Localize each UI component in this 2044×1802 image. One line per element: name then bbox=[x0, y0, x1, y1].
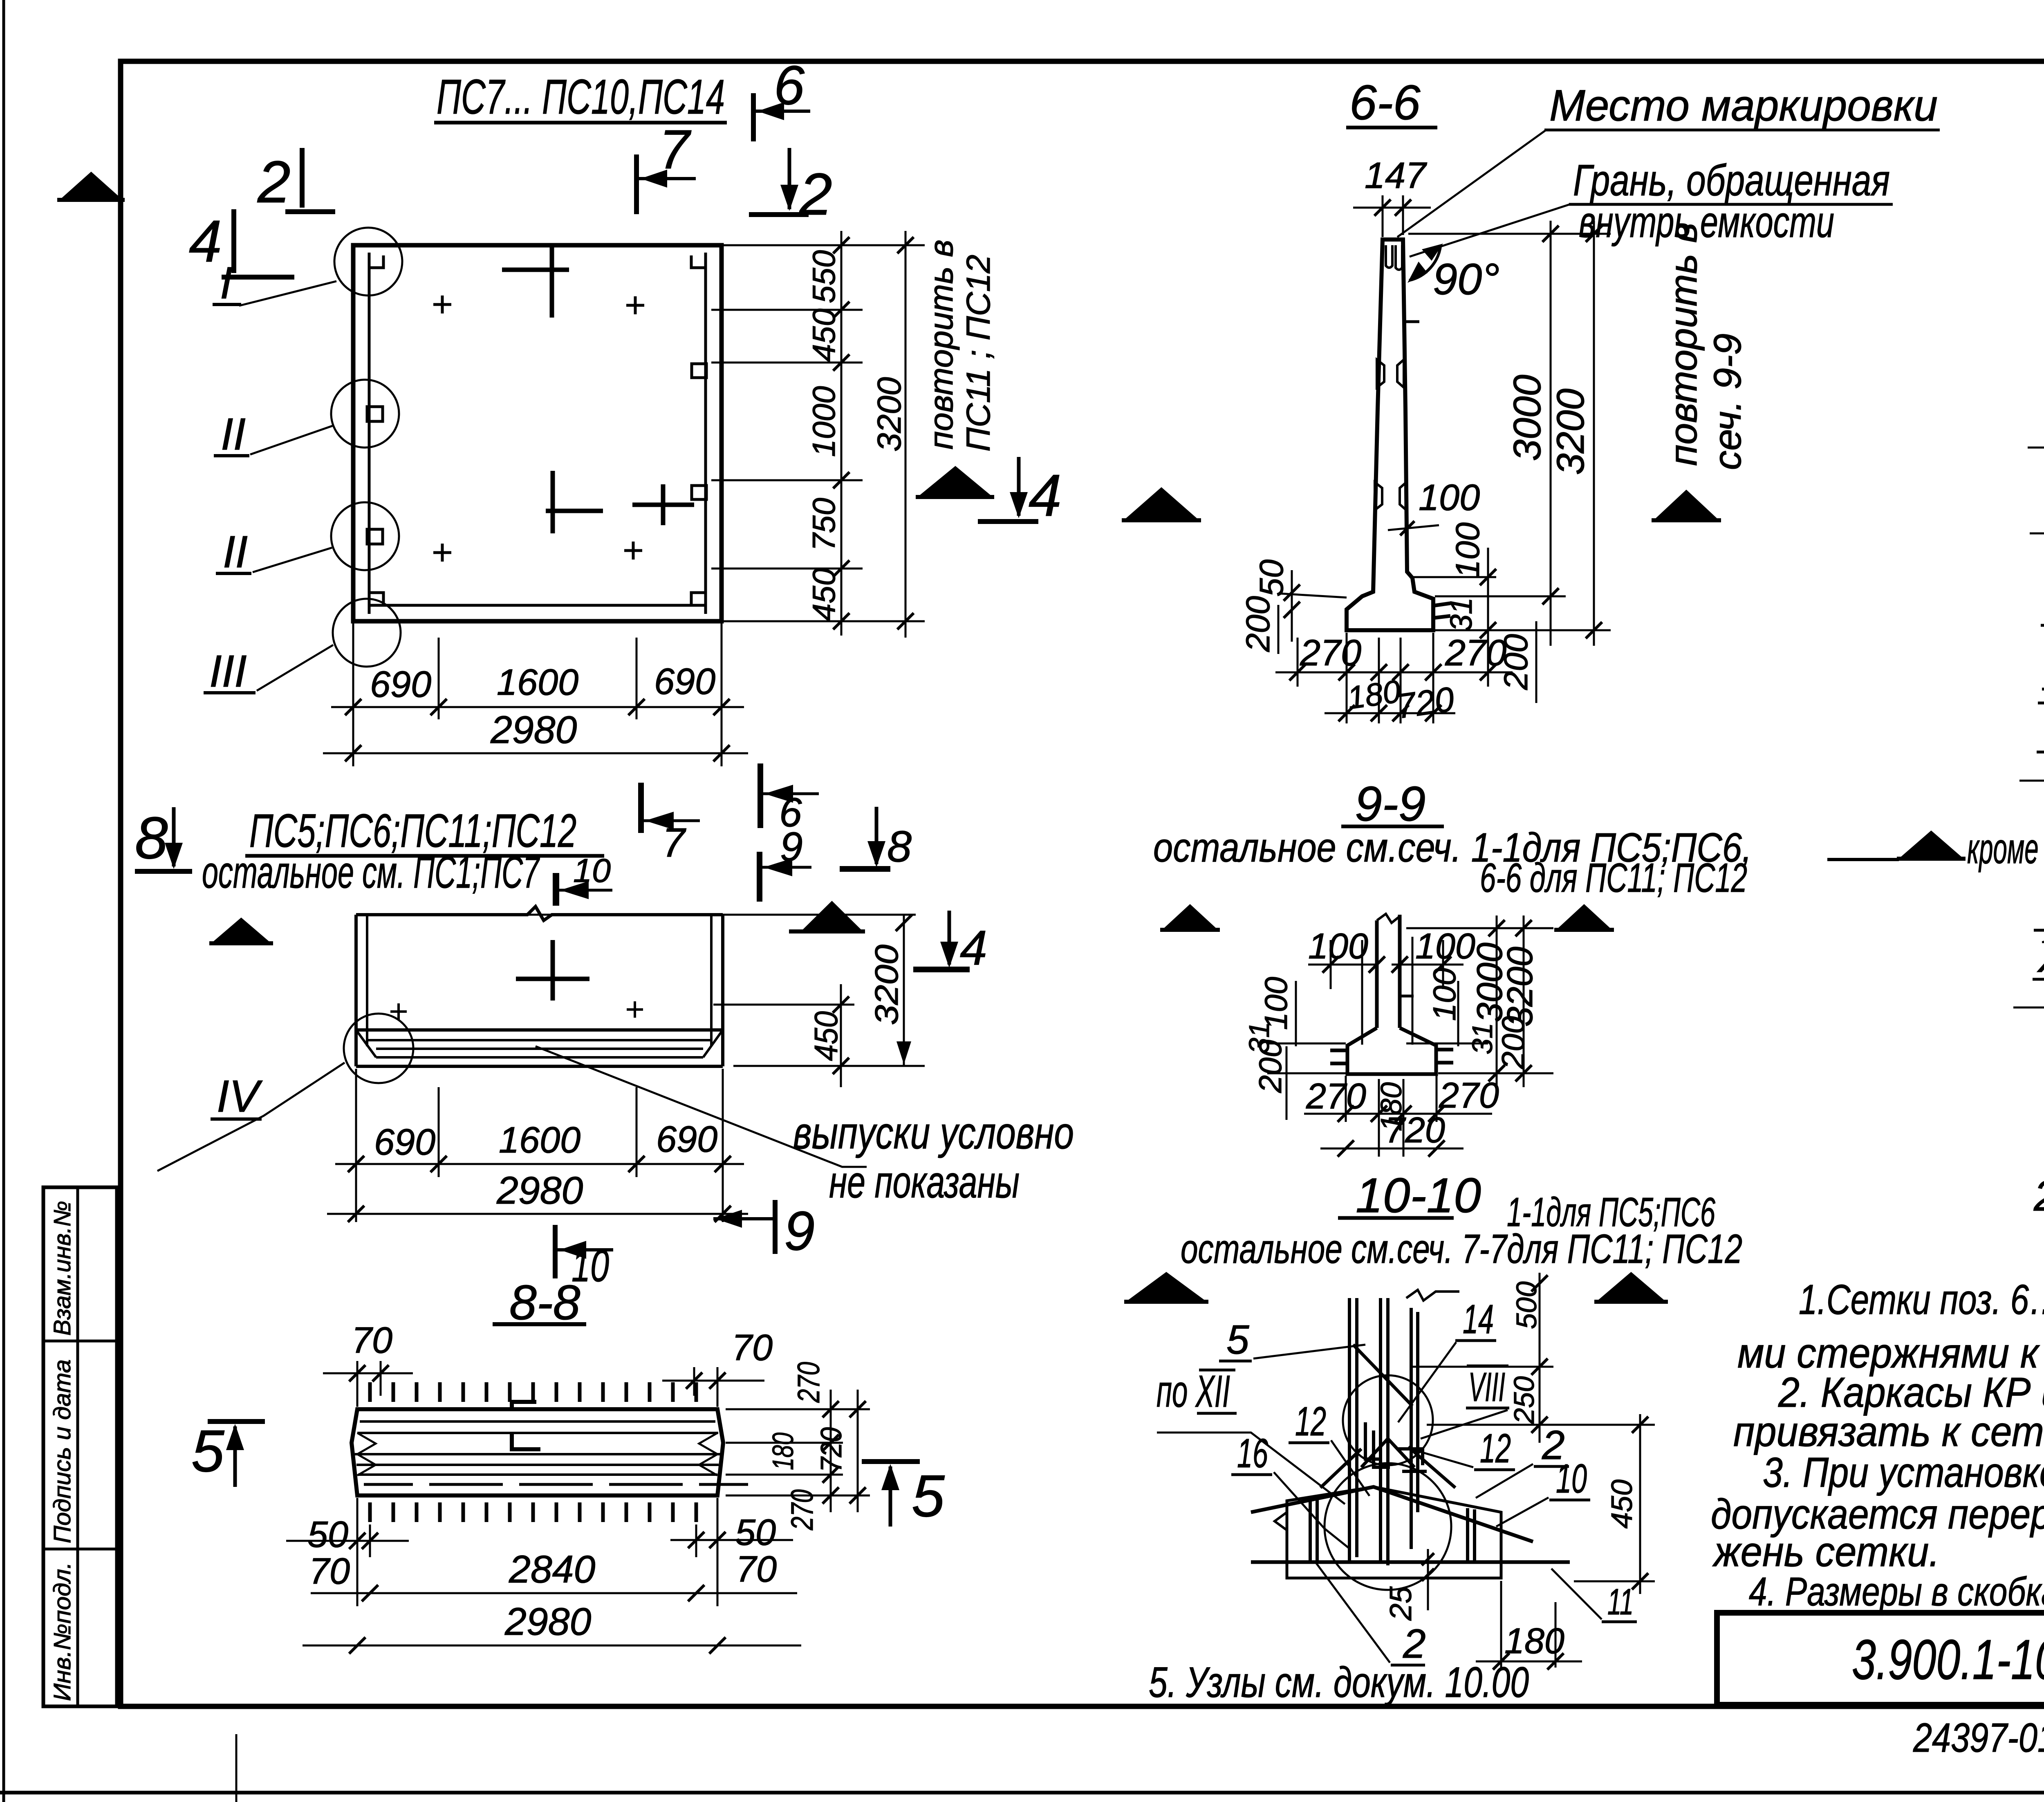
svg-text:2980: 2980 bbox=[490, 708, 577, 752]
sec88 dim line 2980 bbox=[303, 1645, 801, 1647]
svg-text:100: 100 bbox=[1415, 926, 1475, 966]
svg-text:24397-01: 24397-01 bbox=[1913, 1715, 2044, 1761]
sec88 key mark top bbox=[512, 1402, 540, 1449]
svg-text:90°: 90° bbox=[1433, 254, 1499, 304]
sec1010 circle upper bbox=[1343, 1375, 1433, 1465]
flag 6 plan2 bbox=[758, 763, 763, 828]
plan2 left inner bbox=[366, 915, 368, 1046]
dim ext right 750 bbox=[711, 568, 863, 570]
triangle left of 6-6 bbox=[1125, 487, 1198, 519]
dim line 3000 bbox=[1550, 221, 1552, 646]
svg-text:200: 200 bbox=[1252, 1040, 1288, 1093]
dim ext bottom left bbox=[352, 623, 354, 766]
svg-text:жень сетки.: жень сетки. bbox=[1712, 1528, 1940, 1575]
leader gran bbox=[1410, 204, 1570, 257]
svg-text:1000: 1000 bbox=[806, 386, 842, 457]
sec99 dims 3000 3200 bbox=[1496, 916, 1498, 1087]
detail circle II a bbox=[331, 380, 399, 448]
svg-text:750: 750 bbox=[806, 498, 842, 551]
svg-text:147: 147 bbox=[1365, 155, 1427, 196]
svg-text:II: II bbox=[221, 409, 246, 459]
dim ext bottom right bbox=[721, 623, 723, 766]
svg-text:VIII: VIII bbox=[1468, 1364, 1505, 1410]
detail circle IV bbox=[344, 1014, 413, 1083]
plan1 bottom inner line bbox=[369, 604, 706, 607]
sec66 angle arc 90 bbox=[1409, 245, 1441, 280]
plan2 right ext top3200 bbox=[489, 914, 916, 916]
scan bottom edge line bbox=[0, 1791, 2044, 1795]
svg-text:720: 720 bbox=[815, 1427, 848, 1472]
sec99 footing dowels bbox=[1330, 1050, 1453, 1063]
plan2 top edge with break bbox=[356, 907, 723, 920]
plus mark tr bbox=[626, 296, 644, 314]
svg-text:Взам.инв.№: Взам.инв.№ bbox=[49, 1201, 76, 1336]
sec66 bottom dim line2 bbox=[1325, 712, 1455, 714]
svg-text:450: 450 bbox=[806, 309, 842, 362]
svg-text:690: 690 bbox=[656, 1119, 717, 1160]
heading 6-6 underline bbox=[1346, 126, 1437, 130]
sec88 dashed line bbox=[364, 1483, 748, 1486]
svg-text:10: 10 bbox=[1556, 1456, 1587, 1502]
dim ticks v1 bbox=[833, 237, 849, 629]
svg-text:3200: 3200 bbox=[868, 945, 905, 1025]
svg-text:2980: 2980 bbox=[496, 1169, 583, 1212]
sec99 bottom dims 270 180 270 bbox=[1345, 1076, 1347, 1122]
plus mark tl bbox=[433, 295, 451, 313]
sec66 leader line 50 bbox=[1279, 593, 1347, 598]
svg-text:20: 20 bbox=[2033, 1172, 2044, 1220]
svg-text:690: 690 bbox=[654, 661, 715, 702]
leader II b bbox=[253, 548, 332, 572]
dim ticks bottom1 bbox=[345, 699, 730, 715]
svg-text:70: 70 bbox=[732, 1327, 773, 1368]
sec1010 slab bottom bbox=[1287, 1577, 1501, 1580]
dim ticks bottom2 bbox=[345, 745, 730, 761]
dim ext bottom 690 bbox=[438, 638, 440, 719]
plan2 dim line1 bbox=[335, 1163, 744, 1165]
svg-text:по XII: по XII bbox=[1156, 1366, 1230, 1417]
sec1010 footing break left bbox=[1275, 1512, 1287, 1530]
svg-text:4: 4 bbox=[1029, 462, 1062, 528]
plan1 corner key bottom-left bbox=[369, 593, 383, 605]
svg-text:180: 180 bbox=[767, 1433, 800, 1470]
plan1 key mid-left-2 bbox=[367, 529, 383, 544]
svg-text:16: 16 bbox=[1237, 1430, 1268, 1476]
centerline mark center bbox=[551, 471, 555, 533]
ext footing bottom right bbox=[1435, 629, 1611, 631]
svg-text:3200: 3200 bbox=[871, 377, 908, 452]
svg-text:6-6 для ПС11; ПС12: 6-6 для ПС11; ПС12 bbox=[1480, 855, 1747, 901]
svg-text:Подпись и дата: Подпись и дата bbox=[49, 1359, 76, 1543]
sec1010 dim 180 bbox=[1500, 1581, 1502, 1668]
svg-text:1600: 1600 bbox=[497, 662, 578, 703]
sec66 top joint marks bbox=[1386, 245, 1402, 270]
sec1010 hook bars bbox=[1365, 1422, 1427, 1471]
svg-text:сеч. 9-9: сеч. 9-9 bbox=[1706, 334, 1749, 470]
dim ext right 450 bbox=[711, 362, 863, 364]
svg-text:привязать к сеткам.: привязать к сеткам. bbox=[1733, 1408, 2044, 1455]
plan2 right inner bbox=[710, 915, 713, 1046]
svg-text:70: 70 bbox=[352, 1320, 392, 1361]
dim ext right 1000 bbox=[711, 479, 863, 481]
svg-text:180: 180 bbox=[1504, 1621, 1564, 1661]
svg-text:50: 50 bbox=[1253, 560, 1290, 597]
svg-text:25: 25 bbox=[1383, 1586, 1418, 1621]
svg-text:2: 2 bbox=[257, 149, 291, 215]
plan1 corner key bottom-right bbox=[691, 593, 706, 605]
svg-text:2980: 2980 bbox=[504, 1600, 592, 1643]
svg-text:3. При установке строповочны: 3. При установке строповочных петель bbox=[1763, 1449, 2044, 1496]
heading 8-8 underline bbox=[493, 1322, 586, 1326]
svg-text:ПС7... ПС10,ПС14: ПС7... ПС10,ПС14 bbox=[437, 69, 725, 124]
svg-text:270: 270 bbox=[1439, 1075, 1499, 1115]
sec66 footing dowels bbox=[1433, 603, 1450, 618]
dim ext right bottom bbox=[723, 620, 925, 622]
stamp divider vertical bbox=[76, 1187, 79, 1706]
dim line bottom 1 bbox=[331, 706, 744, 708]
svg-text:5: 5 bbox=[1226, 1317, 1249, 1363]
svg-text:Инв.№подл.: Инв.№подл. bbox=[49, 1562, 76, 1701]
sec88 right dims 270 180 720 270 bbox=[726, 1408, 870, 1410]
plan2 dim line2 bbox=[327, 1213, 748, 1215]
svg-text:8-8: 8-8 bbox=[509, 1275, 580, 1330]
svg-text:50: 50 bbox=[735, 1512, 776, 1553]
svg-text:4. Размеры в скобках для пане: 4. Размеры в скобках для панелей ПС13 и … bbox=[1749, 1569, 2044, 1614]
sec88 inner line d bbox=[356, 1464, 719, 1466]
sec99 break top bbox=[1377, 914, 1400, 923]
svg-text:8: 8 bbox=[887, 822, 912, 871]
svg-text:14: 14 bbox=[1463, 1296, 1494, 1342]
leader IV bbox=[157, 1063, 345, 1171]
sec1010 diag brace2 bbox=[1320, 1447, 1455, 1488]
svg-text:1600: 1600 bbox=[499, 1120, 580, 1161]
leader vypuski bbox=[536, 1046, 867, 1167]
plan2 dim ext 690 bbox=[438, 1087, 440, 1177]
svg-text:450: 450 bbox=[1606, 1480, 1638, 1529]
svg-text:11: 11 bbox=[1607, 1582, 1634, 1623]
sec1010 X brace bbox=[1353, 1345, 1414, 1467]
dim 3000 3200 ext top bbox=[1408, 233, 1611, 235]
heading underline bbox=[434, 121, 727, 125]
svg-text:повторить в: повторить в bbox=[1662, 223, 1705, 466]
svg-text:2: 2 bbox=[799, 161, 832, 227]
sec88 inner line c bbox=[355, 1453, 720, 1455]
leader mesto markirovki bbox=[1397, 130, 1546, 237]
plan1 key mid-left-1 bbox=[367, 407, 383, 421]
svg-text:XII: XII bbox=[2037, 931, 2044, 982]
svg-text:270: 270 bbox=[1445, 633, 1506, 674]
plan2 bottom edge bbox=[356, 1065, 723, 1068]
sec66 bottom dims bbox=[1346, 633, 1348, 723]
svg-text:31: 31 bbox=[1444, 598, 1478, 631]
svg-text:3200: 3200 bbox=[1549, 388, 1592, 475]
svg-text:1.Сетки поз. 6…9установить анк: 1.Сетки поз. 6…9установить анкерующи- bbox=[1799, 1276, 2044, 1323]
sec1010 bar 10 diagonal bbox=[1251, 1487, 1533, 1542]
plan2 dim ext right bbox=[722, 1069, 724, 1222]
svg-text:500: 500 bbox=[1511, 1281, 1542, 1329]
sec88 corner notch right bbox=[699, 1433, 717, 1475]
svg-text:250: 250 bbox=[1508, 1376, 1540, 1424]
svg-text:IV: IV bbox=[217, 1071, 263, 1121]
centerline mark top bbox=[550, 246, 554, 318]
plan2 right dim ext top450 bbox=[713, 1004, 854, 1006]
leader I bbox=[239, 281, 336, 306]
svg-text:5. Узлы см. докум. 10.00: 5. Узлы см. докум. 10.00 bbox=[1149, 1659, 1529, 1706]
sec1010 stirrups in footing bbox=[1310, 1496, 1475, 1562]
sec88 slab outline bbox=[352, 1409, 723, 1495]
plan2 dim ext 1600 bbox=[636, 1087, 638, 1177]
svg-text:720: 720 bbox=[1385, 1110, 1445, 1150]
svg-text:повторить в: повторить в bbox=[923, 240, 960, 450]
plan1 outer square bbox=[353, 245, 722, 621]
plan2 bevel right bbox=[703, 1030, 723, 1057]
svg-text:7: 7 bbox=[662, 820, 686, 866]
flag 10 plan2 bottom bbox=[553, 1225, 558, 1278]
svg-text:остальное см. ПС1;ПС7: остальное см. ПС1;ПС7 bbox=[202, 847, 540, 898]
svg-text:ПС11 ; ПС12: ПС11 ; ПС12 bbox=[960, 255, 997, 452]
svg-text:8: 8 bbox=[135, 805, 168, 871]
svg-text:10-10: 10-10 bbox=[1356, 1168, 1481, 1223]
heading underline2 bbox=[245, 854, 604, 858]
sec66 void upper bbox=[1377, 360, 1404, 387]
centerline mark right bbox=[661, 484, 666, 525]
sec88 inner line a bbox=[360, 1420, 715, 1423]
dim ticks v2 bbox=[897, 237, 914, 629]
stamp divider h1 bbox=[43, 1340, 117, 1343]
triangle left of plan1 bbox=[61, 172, 122, 199]
triangle plan2 left bbox=[213, 918, 270, 942]
sec66 column outline bbox=[1347, 240, 1433, 630]
flag 9 plan2 bbox=[757, 852, 762, 902]
svg-text:690: 690 bbox=[370, 664, 431, 705]
plan1 left wall inner line bbox=[368, 253, 371, 614]
plus mark bl bbox=[433, 544, 451, 562]
svg-text:450: 450 bbox=[806, 568, 842, 621]
sec66 void lower bbox=[1375, 482, 1406, 510]
sec1010 footing outline bbox=[1287, 1487, 1501, 1578]
svg-text:70: 70 bbox=[736, 1549, 777, 1590]
sec1010 circle lower bbox=[1325, 1463, 1451, 1590]
sec1010 break top bbox=[1406, 1290, 1459, 1301]
sec66 right small tick bbox=[1405, 320, 1419, 323]
dim ext bottom 1600 bbox=[636, 638, 638, 719]
svg-text:720: 720 bbox=[1394, 680, 1457, 726]
svg-text:4: 4 bbox=[189, 208, 222, 274]
ext footing top right bbox=[1435, 595, 1566, 598]
plan2 dim line 450 bbox=[840, 984, 842, 1087]
dim line v2 3200 bbox=[905, 231, 907, 638]
dim ext right 550 bbox=[711, 309, 863, 311]
svg-text:690: 690 bbox=[374, 1122, 435, 1163]
svg-text:5: 5 bbox=[912, 1463, 945, 1529]
plan2 left edge bbox=[354, 915, 358, 1066]
svg-text:Место маркировки: Место маркировки bbox=[1549, 81, 1938, 130]
plan1 key mid-right-1 bbox=[692, 364, 706, 378]
stamp column box bbox=[43, 1187, 117, 1706]
triangle right of 6-6 bbox=[1655, 490, 1718, 519]
leader II a bbox=[250, 426, 332, 454]
svg-text:5: 5 bbox=[191, 1418, 224, 1484]
detail circle I bbox=[334, 228, 402, 295]
heading 9-9 underline bbox=[1341, 825, 1444, 828]
flag 9 plan2 bottom bbox=[773, 1200, 778, 1254]
heading 10-10 underline bbox=[1338, 1216, 1454, 1220]
svg-text:200: 200 bbox=[1239, 596, 1277, 652]
plan2 right dim ext bot bbox=[733, 1065, 925, 1067]
svg-text:100: 100 bbox=[1419, 477, 1480, 518]
svg-text:550: 550 bbox=[806, 250, 842, 303]
svg-text:выпуски условно: выпуски условно bbox=[793, 1108, 1074, 1158]
svg-text:100: 100 bbox=[1449, 522, 1486, 578]
svg-text:12: 12 bbox=[1480, 1426, 1511, 1471]
svg-text:остальное см.сеч. 7-7для ПС11;: остальное см.сеч. 7-7для ПС11; ПС12 bbox=[1181, 1226, 1742, 1272]
svg-text:3000: 3000 bbox=[1506, 374, 1549, 461]
svg-text:70: 70 bbox=[309, 1551, 350, 1592]
sec88 inner line e bbox=[358, 1473, 717, 1476]
plan2 bevel left bbox=[356, 1030, 376, 1057]
sec1010 dim 250 bbox=[1539, 1373, 1541, 1443]
sec99 footing bbox=[1347, 1028, 1436, 1074]
sec88 inner line b bbox=[357, 1432, 718, 1434]
svg-text:10: 10 bbox=[573, 852, 611, 889]
plan2 dim line 3200 bbox=[903, 915, 905, 1065]
svg-text:270: 270 bbox=[791, 1362, 826, 1403]
plan2 plus right bbox=[627, 1001, 643, 1018]
flag 10 plan2 bbox=[553, 873, 559, 906]
svg-text:450: 450 bbox=[808, 1011, 844, 1061]
sec88 teeth top bbox=[370, 1382, 696, 1402]
fold mark bottom left bbox=[235, 1734, 238, 1802]
plan2 ledge lines bbox=[356, 1028, 723, 1032]
triangle right of plan1 bbox=[919, 466, 991, 496]
sec99 left ext lines bbox=[1267, 1043, 1346, 1045]
sec88 corner notch left bbox=[357, 1433, 376, 1475]
triangle plan2 right bbox=[802, 901, 862, 930]
sec1010 triangle right bbox=[1598, 1272, 1665, 1301]
plan1 corner key top-right bbox=[691, 255, 706, 268]
triangle krome bbox=[1900, 830, 1962, 857]
svg-text:3.900.1-10.2-3-02.00: 3.900.1-10.2-3-02.00 bbox=[1852, 1628, 2044, 1691]
sec1010 wall bars bbox=[1349, 1298, 1418, 1565]
svg-text:9: 9 bbox=[780, 824, 803, 870]
plan2 plus left bbox=[390, 1003, 407, 1020]
svg-text:9: 9 bbox=[784, 1200, 815, 1262]
plan2 dim ext left bbox=[355, 1069, 357, 1222]
svg-text:3200: 3200 bbox=[1499, 947, 1540, 1027]
svg-text:не показаны: не показаны bbox=[829, 1157, 1020, 1207]
sec99 triangle left bbox=[1163, 904, 1217, 929]
svg-text:2840: 2840 bbox=[509, 1548, 596, 1591]
dim ext right top bbox=[723, 244, 925, 246]
sec99 wall lines bbox=[1377, 915, 1400, 1028]
title block box bbox=[1717, 1613, 2044, 1705]
plus mark br bbox=[624, 542, 642, 560]
plan2 right edge bbox=[721, 915, 724, 1066]
svg-text:6-6: 6-6 bbox=[1349, 75, 1421, 130]
svg-text:100: 100 bbox=[1308, 926, 1368, 966]
dim line v1 bbox=[840, 231, 843, 636]
svg-text:II: II bbox=[223, 527, 248, 577]
svg-text:12: 12 bbox=[1295, 1399, 1326, 1444]
sec1010 dim 450 bbox=[1639, 1414, 1641, 1594]
plan1 corner key top-left bbox=[369, 255, 383, 268]
svg-text:внутрь емкости: внутрь емкости bbox=[1579, 197, 1834, 246]
sec99 right ext lines bbox=[1406, 1043, 1488, 1045]
svg-text:270: 270 bbox=[785, 1489, 820, 1531]
dim line 3200 bbox=[1593, 221, 1595, 646]
svg-text:270: 270 bbox=[1300, 633, 1361, 674]
svg-text:270: 270 bbox=[1306, 1076, 1366, 1116]
dim line bottom 2 bbox=[323, 752, 748, 754]
svg-text:50: 50 bbox=[307, 1514, 348, 1555]
sec99 triangle right bbox=[1558, 904, 1611, 929]
flag 7 plan2 bbox=[638, 783, 644, 833]
svg-text:9-9: 9-9 bbox=[1355, 777, 1425, 831]
svg-text:180: 180 bbox=[1345, 673, 1403, 716]
leader III bbox=[257, 645, 333, 691]
plan2 centerline mark bbox=[551, 940, 555, 1001]
svg-text:III: III bbox=[209, 646, 247, 696]
sec88 dim line 2840 bbox=[311, 1592, 797, 1594]
svg-text:100: 100 bbox=[1426, 968, 1462, 1021]
svg-text:31: 31 bbox=[1466, 1023, 1498, 1054]
sec88 teeth bottom bbox=[370, 1502, 696, 1522]
stamp divider h2 bbox=[43, 1548, 117, 1551]
scan left edge line bbox=[2, 0, 5, 1802]
sec1010 bottom mesh line bbox=[1251, 1560, 1570, 1564]
svg-text:кроме ПС14: кроме ПС14 bbox=[1967, 825, 2044, 873]
sec99 dim 720 bbox=[1320, 1148, 1464, 1150]
plan1 right wall inner line bbox=[704, 253, 707, 614]
sec1010 dim 500 bbox=[1539, 1273, 1541, 1373]
detail circle II b bbox=[331, 502, 399, 570]
sec1010 triangle left bbox=[1127, 1272, 1205, 1301]
detail circle III bbox=[333, 599, 401, 667]
plan1 key mid-right-2 bbox=[692, 486, 706, 499]
